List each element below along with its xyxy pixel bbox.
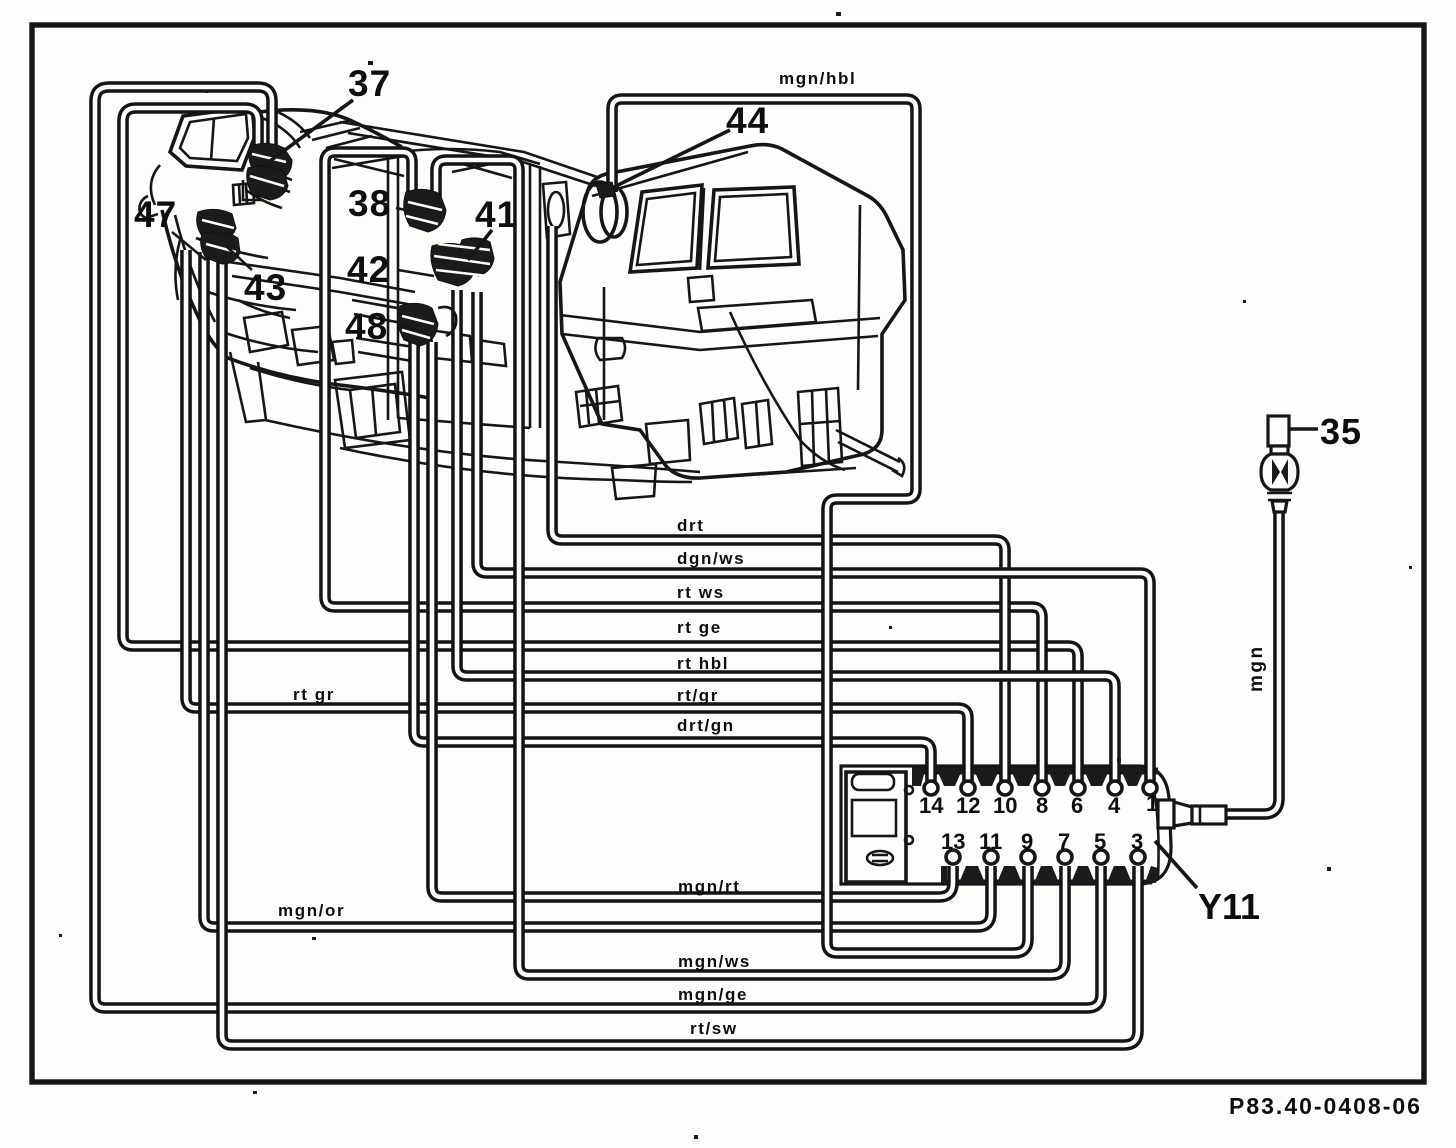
hose rt/sw : connector 43 to port 3: [222, 252, 1138, 1045]
svg-text:mgn/ws: mgn/ws: [678, 952, 751, 971]
svg-text:rt/gr: rt/gr: [677, 686, 719, 705]
svg-text:44: 44: [726, 100, 769, 141]
connector bracket near 44: [543, 182, 570, 238]
svg-text:7: 7: [1058, 829, 1070, 854]
leader line 47: [172, 232, 206, 260]
svg-text:drt: drt: [677, 516, 704, 535]
svg-text:mgn/rt: mgn/rt: [678, 877, 740, 896]
Y11 top ports: [924, 781, 1157, 795]
leader line 41: [468, 230, 492, 260]
vacuum distributor Y11 body: [841, 766, 1171, 884]
leader line 37: [270, 100, 353, 161]
svg-text:rt ge: rt ge: [677, 618, 722, 637]
svg-text:rt/sw: rt/sw: [690, 1019, 738, 1038]
hose mgn/or : connector 43 to port 11: [204, 252, 991, 927]
connector 38: [404, 189, 446, 232]
leader line 43: [226, 246, 252, 270]
connector 37: [243, 143, 292, 200]
svg-text:mgn: mgn: [1246, 644, 1267, 692]
connector 47-43 bundle: [197, 209, 240, 264]
svg-text:Y11: Y11: [1198, 886, 1260, 927]
hose mgn/hbl : connector 44 to port 9: [612, 99, 1028, 953]
heater unit drawing (left dashboard section): [139, 107, 700, 482]
svg-text:5: 5: [1094, 829, 1106, 854]
Y11 bottom ports: [946, 850, 1145, 864]
Y11 outlet nipple to check valve hose: [1158, 800, 1226, 828]
hose drt/gn : connector 48 to port 14: [414, 342, 931, 782]
center section panel of heater drawing: [335, 149, 540, 448]
hose rt hbl : connector 42 to port 4: [457, 290, 1115, 782]
top port numbers 14 12 10 8 6 4 1: [919, 791, 1158, 818]
leader line 42: [398, 270, 434, 276]
hose mgn/rt : connector 48 to port 13: [432, 342, 953, 897]
svg-text:mgn/ge: mgn/ge: [678, 985, 748, 1004]
svg-text:12: 12: [956, 793, 980, 818]
svg-text:6: 6: [1071, 793, 1083, 818]
hose dgn/ws : connector 41 to port 1: [477, 292, 1150, 782]
Y11 left module detail: [846, 772, 913, 882]
Y11 port collar shading: [912, 770, 1158, 883]
svg-text:41: 41: [475, 194, 518, 235]
hose rt ws : connector 38 to port 8: [325, 152, 1042, 782]
svg-text:35: 35: [1320, 411, 1362, 452]
svg-text:4: 4: [1108, 793, 1121, 818]
svg-text:8: 8: [1036, 793, 1048, 818]
svg-text:48: 48: [345, 306, 388, 347]
svg-text:10: 10: [993, 793, 1017, 818]
check valve 35: [1261, 416, 1298, 512]
connector 44: [583, 182, 627, 242]
svg-text:P83.40-0408-06: P83.40-0408-06: [1229, 1093, 1422, 1119]
leader line 35: [1290, 427, 1318, 431]
leader line Y11: [1155, 841, 1197, 888]
svg-text:13: 13: [941, 829, 965, 854]
svg-text:1: 1: [1146, 791, 1158, 816]
hose mgn/ge : connector 37 to port 5: [95, 87, 1101, 1008]
connector 48: [398, 303, 457, 346]
bottom port numbers 13 11 9 7 5 3: [941, 829, 1143, 854]
svg-text:47: 47: [134, 194, 177, 235]
svg-text:37: 37: [348, 63, 391, 104]
svg-text:rt hbl: rt hbl: [677, 654, 729, 673]
svg-text:42: 42: [347, 249, 390, 290]
svg-text:11: 11: [979, 829, 1002, 854]
svg-text:3: 3: [1131, 829, 1143, 854]
hose mgn/ws : connector 41 to port 7: [436, 160, 1065, 975]
hose rt/gr : connector 43 to port 12: [186, 250, 968, 782]
leader line 48: [397, 324, 416, 330]
evaporator box drawing (center): [560, 145, 905, 499]
svg-text:rt gr: rt gr: [293, 685, 335, 704]
svg-text:43: 43: [244, 267, 287, 308]
svg-text:mgn/or: mgn/or: [278, 901, 345, 920]
hose mgn : check valve 35 to Y11 nipple: [1226, 510, 1279, 814]
svg-text:9: 9: [1021, 829, 1033, 854]
svg-text:38: 38: [348, 183, 391, 224]
hose drt : to port 10: [552, 226, 1005, 782]
leader line 44: [616, 130, 730, 186]
hose rt ge : connector 37 to port 6: [123, 108, 1078, 782]
connector 42 and 41: [431, 238, 494, 286]
svg-text:14: 14: [919, 793, 944, 818]
svg-text:mgn/hbl: mgn/hbl: [779, 69, 856, 88]
svg-text:drt/gn: drt/gn: [677, 716, 735, 735]
svg-text:rt ws: rt ws: [677, 583, 725, 602]
svg-text:dgn/ws: dgn/ws: [677, 549, 745, 568]
leader line 38: [396, 208, 410, 211]
